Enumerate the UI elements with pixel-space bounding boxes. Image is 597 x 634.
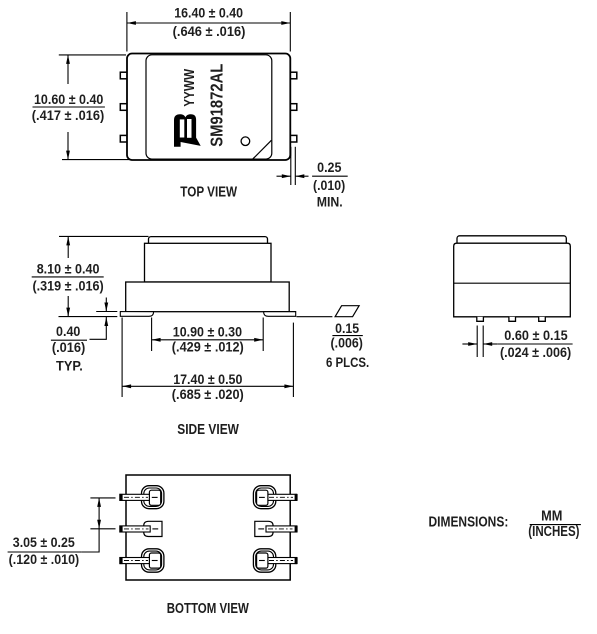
dimension 0.60 extension line right [482, 326, 484, 358]
top view index circle [241, 137, 250, 146]
svg-text:TYP.: TYP. [56, 358, 83, 373]
svg-text:(.685 ± .020): (.685 ± .020) [172, 387, 244, 402]
dimension 10.60 dimension line [66, 55, 70, 160]
svg-text:(.010): (.010) [313, 178, 345, 193]
bottom view pin 5 lead (middle-right) [258, 526, 297, 533]
dimension 0.60 arrows [462, 342, 497, 346]
note MM [541, 509, 562, 525]
end view parting line [454, 282, 571, 284]
side view lid [145, 243, 272, 282]
dimension text 16.40 +/- 0.40 [174, 6, 243, 21]
dimension 3.05 extension line bottom [90, 528, 115, 530]
svg-text:(INCHES): (INCHES) [528, 524, 579, 540]
dimension 8.10 dimension line [66, 236, 70, 316]
dimension text (.646 +/- .016) [173, 24, 246, 39]
top view right pin 2 [290, 104, 297, 111]
bottom view pin 4 ring (bottom-right) [253, 549, 275, 572]
dimension text 0.60 +/- 0.15 [504, 328, 568, 343]
svg-text:8.10 ± 0.40: 8.10 ± 0.40 [37, 262, 100, 277]
dimension 17.40 dimension line [122, 384, 293, 388]
dimension text 6 PLCS. [326, 355, 369, 370]
bottom view pin 5 pad [255, 521, 273, 536]
bottom view pin 6 ring (top-right) [253, 486, 275, 509]
dimension 0.40 upper arrow [104, 298, 108, 312]
dimension text (.024 +/- .006) [500, 345, 571, 360]
svg-text:MM: MM [541, 509, 562, 525]
dimension 10.90 extension line left [151, 318, 153, 352]
fraction bar 0.15 [332, 335, 362, 337]
dimension 3.05 leader [82, 529, 99, 552]
dimension 0.60 extension line left [476, 326, 478, 358]
label SIDE VIEW [177, 422, 239, 438]
bottom view pin 1 lead [120, 494, 151, 501]
label BOTTOM VIEW [167, 601, 249, 617]
top view left pin 1 [120, 72, 127, 79]
side view left foot [120, 312, 153, 317]
side view right foot [264, 312, 296, 317]
svg-text:10.60 ± 0.40: 10.60 ± 0.40 [34, 92, 103, 107]
bottom view pin 1 pad [149, 490, 160, 505]
dimension text 3.05 +/- 0.25 [13, 535, 75, 550]
svg-text:SIDE VIEW: SIDE VIEW [177, 422, 239, 438]
side view cap [149, 237, 268, 246]
bottom view body outline [126, 475, 290, 580]
svg-text:(.319 ± .016): (.319 ± .016) [33, 279, 104, 294]
note (INCHES) [528, 524, 579, 540]
top view right pin 3 [290, 135, 297, 142]
svg-text:(.646 ± .016): (.646 ± .016) [173, 24, 246, 39]
top view left pin 2 [120, 104, 127, 111]
coplanarity leader line [297, 316, 333, 318]
top view package body outline [127, 54, 290, 161]
bottom view pin 3 pad [149, 553, 160, 568]
svg-text:(.120 ± .010): (.120 ± .010) [9, 552, 80, 567]
svg-text:0.40: 0.40 [56, 324, 80, 339]
svg-text:0.60 ± 0.15: 0.60 ± 0.15 [504, 328, 568, 343]
fraction bar 8.10 [32, 276, 104, 278]
svg-text:0.25: 0.25 [317, 160, 342, 175]
svg-text:(.024 ± .006): (.024 ± .006) [500, 345, 571, 360]
end view body [454, 243, 571, 317]
dimension 0.25 extension line right [294, 147, 296, 185]
dimension 8.10 extension line bottom [59, 316, 118, 318]
fraction bar 10.60 [33, 106, 105, 108]
note fraction bar [530, 524, 581, 526]
end view pin stub 2 [509, 317, 516, 322]
dimension text 10.60 +/- 0.40 [34, 92, 103, 107]
fraction bar 0.25 [312, 175, 348, 177]
dimension text TYP. [56, 358, 83, 373]
dimension text 8.10 +/- 0.40 [37, 262, 100, 277]
dimension 3.05 extension line top [90, 497, 115, 499]
bottom view pin 3 lead [120, 557, 151, 564]
dimension 10.60 extension line top [59, 54, 126, 56]
top view cover (inner rounded rect) [146, 55, 272, 159]
dimension text 17.40 +/- 0.50 [173, 372, 242, 387]
dimension text 0.40 [56, 324, 80, 339]
dimension 16.40 extension line left [126, 12, 128, 52]
dimension text (.010) [313, 178, 345, 193]
svg-text:DIMENSIONS:: DIMENSIONS: [429, 514, 509, 530]
bottom view pin 2 pad [144, 521, 162, 536]
dimension 10.60 extension line bottom [62, 159, 131, 161]
date code YYWW (rotated) [181, 68, 198, 107]
dimension 0.25 extension line left [290, 147, 292, 185]
fraction bar 0.40 [51, 339, 87, 341]
bottom view pin 2 lead (middle-left) [120, 526, 159, 533]
dimension text MIN. [317, 195, 343, 210]
end view cap [457, 236, 566, 246]
svg-text:(.006): (.006) [331, 335, 363, 350]
bottom view pin 1 ring (top-left) [142, 486, 164, 509]
bottom view pin 4 lead [267, 557, 298, 564]
bottom view pin 4 pad [257, 553, 268, 568]
Bourns logo B (rotated) [174, 114, 201, 147]
svg-text:17.40 ± 0.50: 17.40 ± 0.50 [173, 372, 242, 387]
label TOP VIEW [180, 185, 237, 201]
svg-text:3.05 ± 0.25: 3.05 ± 0.25 [13, 535, 75, 550]
dimension 3.05 dimension line [97, 498, 101, 529]
top view right pin 1 [290, 72, 297, 79]
svg-text:0.15: 0.15 [335, 321, 359, 336]
dimension text (.685 +/- .020) [172, 387, 244, 402]
dimension 0.40 tick line [96, 311, 117, 313]
end view pin stub 1 [477, 317, 484, 322]
dimension 0.40 lower arrow and leader [90, 317, 109, 339]
svg-text:(.429 ± .012): (.429 ± .012) [172, 339, 244, 354]
svg-text:TOP VIEW: TOP VIEW [180, 185, 237, 201]
svg-text:MIN.: MIN. [317, 195, 343, 210]
dimension 0.25 arrows [277, 174, 309, 178]
dimension text (.429 +/- .012) [172, 339, 244, 354]
dimension 16.40 dimension line [127, 21, 290, 25]
top view pin-1 chamfer line [253, 140, 272, 159]
dimension text (.016) [52, 340, 86, 355]
svg-text:10.90 ± 0.30: 10.90 ± 0.30 [173, 324, 242, 339]
dimension 10.90 extension line right [262, 318, 264, 352]
fraction bar 0.60 [497, 343, 572, 345]
dimension text 10.90 +/- 0.30 [173, 324, 242, 339]
svg-text:6 PLCS.: 6 PLCS. [326, 355, 369, 370]
svg-text:BOTTOM VIEW: BOTTOM VIEW [167, 601, 249, 617]
svg-text:YYWW: YYWW [181, 68, 198, 107]
dimension text (.319 +/- .016) [33, 279, 104, 294]
dimension text (.417 +/- .016) [32, 108, 104, 123]
svg-text:SM91872AL: SM91872AL [206, 63, 226, 146]
note DIMENSIONS: [429, 514, 509, 530]
dimension text (.006) [331, 335, 363, 350]
dimension text 0.25 [317, 160, 342, 175]
top view left pin 3 [120, 135, 127, 142]
dimension 16.40 extension line right [289, 12, 291, 52]
part number SM91872AL (rotated) [206, 63, 226, 146]
dimension 10.90 dimension line [152, 338, 264, 342]
dimension 17.40 extension line left [121, 318, 123, 398]
svg-text:(.417 ± .016): (.417 ± .016) [32, 108, 104, 123]
dimension 8.10 extension line top [59, 235, 149, 237]
svg-text:(.016): (.016) [52, 340, 86, 355]
bottom view pin 6 lead [267, 494, 298, 501]
dimension 17.40 extension line right [292, 323, 294, 397]
fraction bar 3.05 [8, 551, 82, 553]
svg-text:16.40 ± 0.40: 16.40 ± 0.40 [174, 6, 243, 21]
bottom view pin 6 pad [257, 490, 268, 505]
bottom view pin 3 ring (bottom-left) [142, 549, 164, 572]
end view pin stub 3 [539, 317, 546, 322]
dimension text 0.15 [335, 321, 359, 336]
dimension text (.120 +/- .010) [9, 552, 80, 567]
side view base body [126, 282, 290, 312]
coplanarity parallelogram symbol [335, 306, 359, 317]
